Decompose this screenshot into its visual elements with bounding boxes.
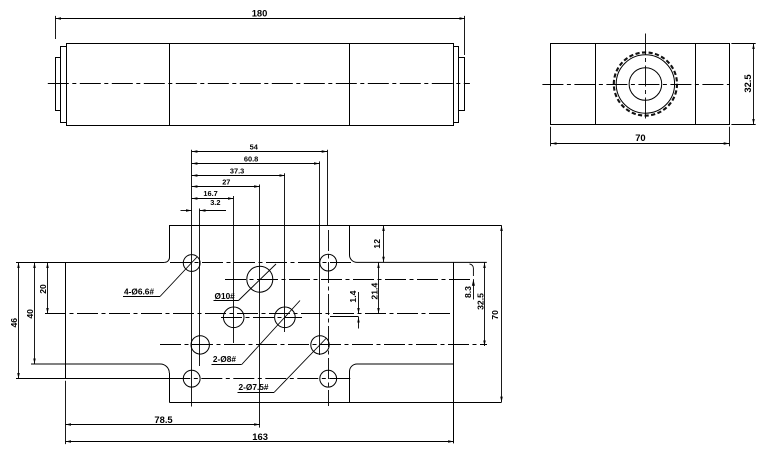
- front view right outer cap: [459, 58, 465, 111]
- front view division line right: [349, 43, 351, 125]
- side view division line left: [595, 43, 597, 125]
- plate lower-left bottom edge: [16, 378, 169, 380]
- front view left middle cap: [61, 47, 67, 123]
- front view division line left: [169, 43, 171, 125]
- svg-text:37.3: 37.3: [230, 166, 244, 175]
- hole A top-left: [183, 255, 200, 272]
- hole B top-right: [320, 254, 337, 271]
- svg-text:27: 27: [222, 178, 230, 187]
- centerline middle hole row: [221, 317, 302, 319]
- plate tab left edge: [169, 373, 171, 402]
- dimension 3.2: [181, 210, 192, 212]
- svg-text:40: 40: [25, 309, 35, 319]
- svg-text:180: 180: [252, 8, 268, 19]
- dimension 78.5: [66, 424, 260, 426]
- hole D middle-left: [223, 307, 244, 328]
- svg-text:8.3: 8.3: [463, 286, 473, 298]
- extension column A: [191, 150, 193, 407]
- hole C big: [247, 266, 273, 292]
- hole F lower-left: [191, 336, 209, 354]
- dimension 16.7: [192, 198, 234, 200]
- extension column 54: [327, 150, 329, 226]
- side view vertical centerline: [645, 34, 647, 121]
- dimension 180: [56, 18, 466, 20]
- centerline bottom hole row: [169, 378, 352, 380]
- dimension 12: [383, 225, 385, 262]
- svg-text:32.5: 32.5: [742, 74, 753, 92]
- front view left outer cap: [56, 58, 61, 111]
- centerline column b-i: [328, 230, 330, 406]
- dimension 70 side view: [551, 143, 729, 145]
- plate upper-left edge: [16, 262, 164, 264]
- svg-text:4-Ø6.6#: 4-Ø6.6#: [124, 287, 154, 297]
- dimension 32.5 side view: [753, 44, 755, 125]
- dimension 1.4: [358, 292, 360, 314]
- plate inner right edge: [453, 262, 455, 443]
- dimension 70 plate: [501, 225, 503, 402]
- extension column 37.3: [284, 173, 286, 332]
- extension column 27: [259, 185, 261, 428]
- extension column 60.8: [319, 161, 321, 355]
- side view body: [551, 44, 730, 125]
- svg-text:32.5: 32.5: [475, 293, 485, 310]
- extension 1.4 row: [330, 316, 359, 318]
- plate right step top with fillet: [350, 225, 487, 262]
- svg-text:70: 70: [635, 132, 645, 143]
- front view body: [67, 44, 454, 126]
- side view threaded ring: [608, 47, 683, 122]
- dimension 37.3: [192, 175, 285, 177]
- svg-text:20: 20: [38, 284, 48, 294]
- svg-text:3.2: 3.2: [210, 198, 220, 207]
- svg-text:12: 12: [372, 239, 382, 249]
- svg-text:70: 70: [490, 310, 500, 320]
- svg-text:Ø10#: Ø10#: [215, 291, 236, 301]
- plate bottom edge: [169, 402, 501, 404]
- centerline main horizontal: [45, 313, 454, 315]
- dimension 60.8: [192, 163, 320, 165]
- extension column 16.7: [233, 196, 235, 343]
- plate raised left edge with fillet: [165, 225, 170, 262]
- side view outer circle: [616, 55, 674, 113]
- svg-text:2-Ø7.5#: 2-Ø7.5#: [239, 382, 269, 392]
- side view inner circle: [629, 68, 662, 101]
- dimension 163: [66, 441, 454, 443]
- dimension 8.3: [473, 279, 475, 299]
- svg-text:60.8: 60.8: [244, 155, 258, 164]
- centerline top hole row: [170, 262, 352, 264]
- svg-text:2-Ø8#: 2-Ø8#: [213, 354, 236, 364]
- svg-text:21.4: 21.4: [369, 283, 379, 300]
- dimension 27: [192, 186, 260, 188]
- plate right step bottom with fillet: [350, 364, 454, 402]
- svg-text:1.4: 1.4: [348, 290, 358, 302]
- hole E middle-right: [275, 307, 296, 328]
- svg-text:46: 46: [9, 318, 19, 328]
- svg-text:54: 54: [250, 143, 259, 152]
- centerline big hole row: [225, 279, 474, 281]
- front view centerline: [48, 83, 470, 85]
- dimension 21.4: [378, 262, 380, 313]
- dimension 32.5 plate: [484, 262, 486, 346]
- dimension 20: [47, 262, 49, 313]
- dimension 54: [192, 151, 328, 153]
- svg-text:78.5: 78.5: [154, 414, 172, 425]
- front view right middle cap: [454, 47, 459, 123]
- dimension 46: [18, 262, 20, 378]
- centerline lower hole row: [160, 344, 487, 346]
- plate left step edge with fillet: [31, 364, 169, 373]
- side view division line right: [695, 43, 697, 125]
- hole G lower-right: [311, 336, 329, 354]
- extension column 3.2: [199, 209, 201, 367]
- plate left edge: [65, 262, 67, 378]
- hole I bottom-right: [320, 370, 337, 387]
- svg-text:16.7: 16.7: [203, 189, 217, 198]
- side view horizontal centerline: [542, 84, 730, 86]
- hole H bottom-left: [183, 370, 200, 387]
- dimension 40: [34, 262, 36, 364]
- plate top edge: [169, 225, 502, 227]
- svg-text:163: 163: [252, 431, 268, 442]
